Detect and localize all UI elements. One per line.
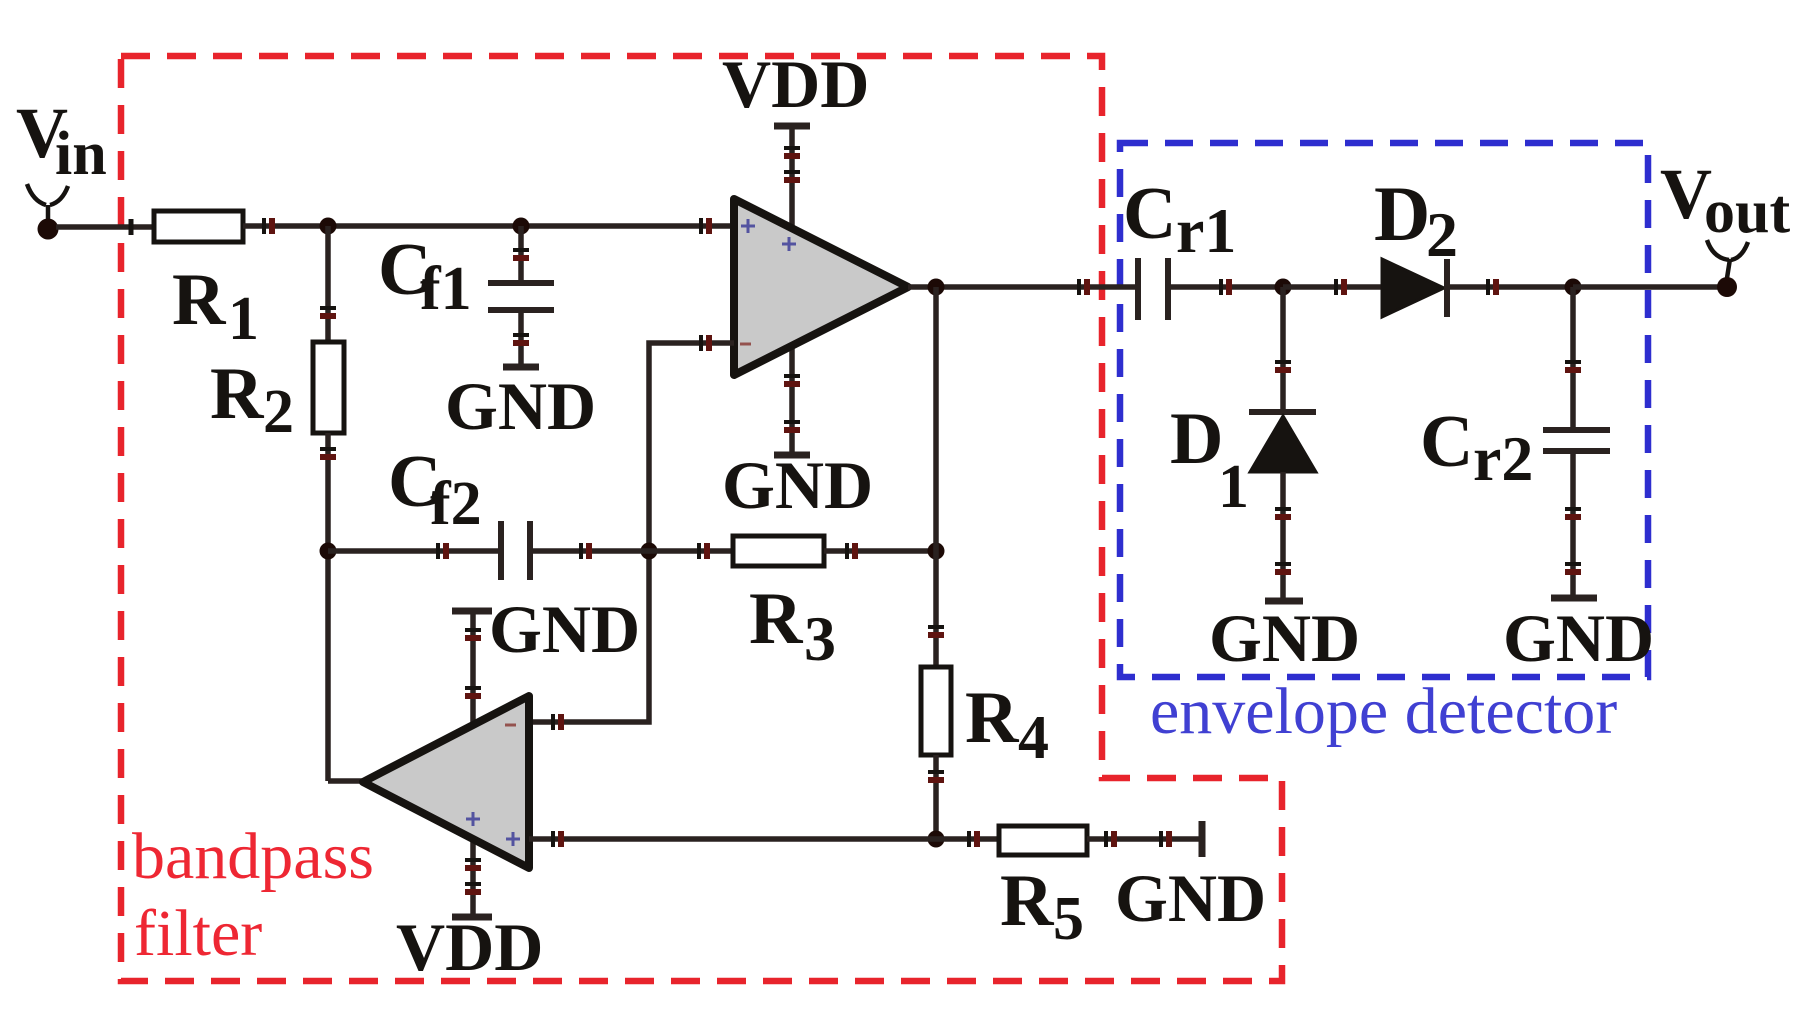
label Cr2 <box>1420 401 1533 494</box>
ticks on U1 VDD wire <box>784 148 800 180</box>
wire Cf2 to node D <box>530 548 649 554</box>
svg-text:in: in <box>55 120 107 188</box>
capacitor Cf1 <box>488 283 554 310</box>
tick after Cr1 <box>1221 279 1229 295</box>
wire U2 to VDD bar below <box>470 842 476 917</box>
ticks below D1 <box>1275 509 1291 572</box>
VDD bar below U2 <box>452 914 492 921</box>
resistor R4 <box>921 667 951 755</box>
wire Cf1 to ground <box>518 310 524 367</box>
svg-text:GND: GND <box>1115 860 1266 936</box>
output terminal Vout (antenna symbol) <box>1707 240 1748 297</box>
node D junction (Cf2/R3 tap on rail) <box>641 543 658 560</box>
wire U1 inverting input feedback rail <box>529 343 734 722</box>
svg-text:5: 5 <box>1053 885 1084 953</box>
label D1 <box>1170 398 1249 521</box>
node F junction at U1 output <box>928 279 945 296</box>
ground bar below U1 <box>774 452 810 459</box>
svg-text:r2: r2 <box>1473 423 1533 494</box>
tick before D2 <box>1336 279 1344 295</box>
tick after R1 <box>264 218 272 234</box>
diode D1 <box>1249 412 1316 472</box>
wire node F down through node E to R4 <box>933 287 939 667</box>
wire node B down to Cf1 <box>518 226 524 283</box>
svg-text:R: R <box>210 353 265 435</box>
caption bandpass filter <box>132 820 374 970</box>
svg-text:R: R <box>749 578 804 660</box>
ticks after R5 <box>1106 831 1169 847</box>
svg-text:2: 2 <box>1426 199 1458 270</box>
svg-text:GND: GND <box>1209 600 1360 676</box>
wire R1 to op-amp U1 non-inverting input <box>243 223 734 229</box>
tick after R3 <box>847 543 855 559</box>
resistor R5 <box>999 826 1087 855</box>
svg-text:R: R <box>965 677 1020 759</box>
svg-text:VDD: VDD <box>396 909 543 985</box>
tick before Cf2 <box>438 543 446 559</box>
wire R4 to node G <box>933 755 939 839</box>
tick after D2 <box>1488 279 1496 295</box>
label R3 <box>749 578 836 674</box>
op-amp U1 <box>734 199 908 375</box>
wire ground to U2 <box>470 611 476 730</box>
svg-text:R: R <box>172 259 227 341</box>
svg-text:3: 3 <box>804 603 836 674</box>
tick below R4 <box>928 772 944 780</box>
svg-text:1: 1 <box>1218 453 1249 521</box>
svg-text:GND: GND <box>489 591 640 667</box>
node H junction (D1 tap) <box>1275 279 1292 296</box>
wire U2 non-inverting input to node G <box>529 836 936 842</box>
svg-text:f2: f2 <box>430 470 482 538</box>
ticks above R4 <box>928 627 944 635</box>
wire node D to R3 <box>649 548 733 554</box>
svg-text:VDD: VDD <box>722 46 869 122</box>
resistor R2 <box>313 342 344 433</box>
wire node H to D2 <box>1283 284 1386 290</box>
capacitor Cr2 <box>1543 430 1610 451</box>
svg-text:1: 1 <box>228 285 259 353</box>
node C junction (R2/Cf2/U2 output rail) <box>320 543 337 560</box>
label R5 <box>1000 860 1084 953</box>
node B junction (Cf1 tap) <box>513 218 530 235</box>
tick before U1 + input <box>701 218 709 234</box>
bandpass filter region (red dashed boundary) <box>121 56 1282 981</box>
label GND below Cr2 <box>1503 600 1654 676</box>
label Vout <box>1660 154 1790 246</box>
ticks on U1 GND wire <box>784 376 800 430</box>
tick before U2 - input <box>553 714 561 730</box>
ground bar right of R5 <box>1199 821 1206 857</box>
label GND below D1 <box>1209 600 1360 676</box>
svg-text:f1: f1 <box>420 255 472 323</box>
wire Cr2 to ground <box>1570 451 1576 598</box>
ground bar below Cf1 <box>503 364 539 371</box>
tick on input wire <box>129 219 134 235</box>
svg-text:bandpass: bandpass <box>132 820 374 893</box>
resistor R1 <box>154 211 243 242</box>
capacitor Cr1 <box>1138 258 1168 320</box>
tick before U1 - input <box>701 335 709 351</box>
label Cf1 <box>378 229 472 323</box>
ground bar above U2 <box>452 608 492 615</box>
ground bar below Cr2 <box>1551 595 1597 602</box>
node E junction (U1 output rail / R4) <box>928 543 945 560</box>
svg-text:C: C <box>1123 173 1176 255</box>
svg-text:out: out <box>1704 178 1790 246</box>
wire U1 output to Cr1 <box>908 284 1138 290</box>
diode D2 <box>1382 259 1447 317</box>
wire node I to Vout <box>1573 284 1727 290</box>
wire node G to R5 <box>936 836 999 842</box>
tick below R2 <box>320 449 336 457</box>
wire Vin to R1 <box>56 224 154 230</box>
wire D2 to node I <box>1447 284 1573 290</box>
wire node I down to Cr2 <box>1570 287 1576 430</box>
svg-text:envelope detector: envelope detector <box>1150 675 1617 748</box>
tick before R5 <box>969 831 977 847</box>
label D2 <box>1374 170 1458 270</box>
wire D1 to ground <box>1280 472 1286 601</box>
wire VDD to U1 <box>789 126 795 238</box>
label R4 <box>965 677 1049 772</box>
node A junction (R1/R2/Cf1 rail) <box>320 218 337 235</box>
svg-text:r1: r1 <box>1176 195 1236 266</box>
wire node C to Cf2 <box>328 548 501 554</box>
wire R2 down to node C <box>325 433 331 781</box>
tick above Cr2 <box>1565 362 1581 370</box>
wire node C to op-amp U2 output <box>328 778 363 784</box>
caption envelope detector <box>1150 675 1617 748</box>
svg-text:GND: GND <box>722 447 873 523</box>
tick above R2 <box>320 308 336 316</box>
tick below Cf1 <box>513 335 529 343</box>
ground bar below D1 <box>1265 598 1303 605</box>
svg-text:D: D <box>1170 398 1223 480</box>
tick after Cf2 <box>581 543 589 559</box>
svg-text:4: 4 <box>1018 704 1049 772</box>
op-amp U2 <box>363 696 529 868</box>
wire U1 to ground bar below <box>789 340 795 455</box>
wire R5 to ground bar <box>1087 836 1202 842</box>
svg-text:C: C <box>1420 401 1473 483</box>
node I junction (Cr2 tap) <box>1565 279 1582 296</box>
resistor R3 <box>733 536 824 566</box>
tick above Cf1 <box>513 250 529 258</box>
label GND below U1 <box>722 447 873 523</box>
VDD bar above U1 <box>774 123 810 130</box>
svg-text:filter: filter <box>134 897 262 970</box>
label GND below Cf1 <box>445 368 596 444</box>
envelope detector region (blue dashed boundary) <box>1120 143 1648 677</box>
tick before R3 <box>699 543 707 559</box>
label R2 <box>210 353 294 446</box>
ticks on U2 VDD wire <box>465 860 481 892</box>
wire R3 to node E <box>824 548 936 554</box>
label GND above U2 <box>489 591 640 667</box>
wire node A down to R2 <box>325 226 331 342</box>
label VDD above U1 <box>722 46 869 122</box>
tick before Cr1 <box>1079 279 1087 295</box>
tick above D1 <box>1275 362 1291 370</box>
ticks on U2 GND wire <box>465 630 481 696</box>
label Vin <box>16 93 107 188</box>
tick after U2 + input <box>553 831 561 847</box>
svg-text:D: D <box>1374 170 1430 257</box>
ticks below Cr2 <box>1565 509 1581 572</box>
svg-text:GND: GND <box>445 368 596 444</box>
label GND right of R5 <box>1115 860 1266 936</box>
label VDD below U2 <box>396 909 543 985</box>
label Cr1 <box>1123 173 1236 266</box>
input terminal Vin (antenna symbol) <box>27 184 68 240</box>
wire node H down to D1 <box>1280 287 1286 412</box>
label R1 <box>172 259 259 353</box>
capacitor Cf2 <box>501 521 530 580</box>
label Cf2 <box>388 441 482 538</box>
svg-text:GND: GND <box>1503 600 1654 676</box>
node G junction (U2 + input / R5) <box>928 831 945 848</box>
svg-text:2: 2 <box>263 378 294 446</box>
wire Cr1 to node H <box>1168 284 1283 290</box>
svg-text:R: R <box>1000 860 1055 942</box>
